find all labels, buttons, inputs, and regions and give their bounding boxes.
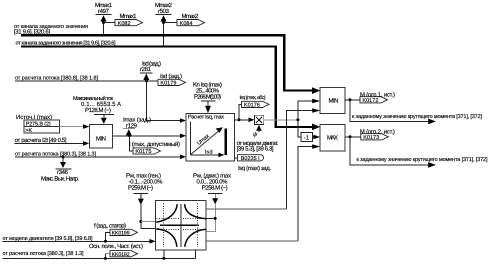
wire I2t input to MIN	[15, 141, 90, 146]
node flux stub junction	[162, 257, 165, 260]
wire 4Q to P258 junction	[206, 217, 215, 219]
connector flag K0179 Isd	[158, 73, 186, 87]
wire tap to flag K0175	[130, 136, 134, 151]
svg-text:K084: K084	[180, 21, 193, 27]
svg-text:Isq (max) зад.: Isq (max) зад.	[238, 165, 271, 172]
wire to flag K084	[164, 22, 178, 24]
svg-text:r503: r503	[158, 8, 170, 15]
svg-text:Mmax2: Mmax2	[182, 13, 200, 20]
monitor point r346 max output voltage	[41, 157, 79, 182]
svg-text:K0173: K0173	[363, 135, 379, 141]
connector flag KK0192	[106, 251, 138, 259]
parameter P128 max current	[73, 95, 121, 124]
connector flag K084 Mmax2	[177, 13, 205, 27]
block U3: MAX	[320, 125, 345, 151]
wire MIN output	[345, 99, 360, 101]
svg-text:I (max, допустимый): I (max, допустимый)	[129, 141, 180, 148]
wire 4Q motoring output (to riser)	[206, 208, 286, 210]
block U5: 4-quadrant power limit	[156, 200, 206, 250]
graph inside U1: Isd clamp (thick vertical)	[225, 128, 227, 155]
svg-text:25... 400%: 25... 400%	[196, 87, 220, 94]
svg-text:>K: >K	[25, 128, 32, 134]
wire Mmax1 bus (thick) to MIN input 1	[21, 35, 320, 94]
svg-text:K0172: K0172	[362, 98, 378, 104]
svg-text:K0176: K0176	[244, 103, 260, 109]
wire Isd down into Isq-max block	[147, 81, 181, 121]
svg-text:MIN: MIN	[96, 135, 106, 142]
wire flux line into U1	[15, 156, 180, 158]
svg-text:к заданному значению крутящего: к заданному значению крутящего момента […	[352, 114, 482, 120]
wire U1 flux input arrow	[180, 155, 186, 160]
wire MAX limit to torque setpoint	[350, 137, 436, 168]
wire flux line under 4Q	[3, 257, 196, 259]
block -1 inverter	[301, 133, 313, 142]
svg-text:r281: r281	[140, 66, 152, 73]
svg-text:[39 5.3], [39 6.3]: [39 5.3], [39 6.3]	[237, 146, 274, 153]
graph U5 hyperbola curves	[156, 204, 206, 247]
monitor point Mmax1 r497	[95, 2, 113, 21]
wire to flag K082	[104, 22, 116, 24]
svg-text:Осн. поля., Част. (ист.): Осн. поля., Част. (ист.)	[89, 243, 143, 250]
wire generator limit riser to MAX input 3	[298, 144, 320, 241]
node r346 junction	[62, 156, 65, 159]
graph inside U1: x-axis with arrow	[190, 153, 224, 158]
svg-text:K0175: K0175	[135, 149, 151, 155]
wire flux stubs into 4Q bottom	[164, 250, 196, 259]
wire selector output to MIN (grey)	[60, 124, 90, 129]
parameter Kn Isq (max) P268	[193, 81, 222, 113]
node KK0199 junction	[104, 240, 107, 243]
svg-text:MAX: MAX	[327, 135, 338, 142]
svg-text:KK0192: KK0192	[112, 252, 130, 258]
wire f setpoint into 4Q	[3, 239, 156, 244]
svg-text:-1: -1	[304, 134, 310, 141]
svg-text:ψ: ψ	[253, 132, 258, 138]
svg-text:Isq (max, абс): Isq (max, абс)	[240, 95, 266, 101]
svg-text:K082: K082	[118, 21, 131, 27]
svg-text:f (зад., статор): f (зад., статор)	[94, 222, 126, 229]
svg-text:от расчета потока [380.3], [38: от расчета потока [380.3], [38 1.3]	[3, 251, 84, 257]
wire junction down to inverter -1	[298, 120, 301, 137]
graph U5 dotted verticals	[163, 203, 197, 247]
svg-text:r346: r346	[57, 169, 69, 176]
svg-text:к заданному значению крутящего: к заданному значению крутящего момента […	[357, 157, 488, 163]
connector flag K082 Mmax1	[115, 13, 143, 27]
graph U5 solid horizontal	[160, 224, 199, 226]
block U2: MIN (right)	[320, 87, 345, 113]
node P259 junction	[139, 220, 142, 223]
node Mmax1 junction	[102, 21, 105, 24]
node r129 junction	[128, 134, 131, 137]
svg-text:P259.M (~): P259.M (~)	[128, 184, 153, 191]
svg-text:Isd: Isd	[205, 149, 213, 155]
block U1: Расчет Isq, max	[186, 114, 235, 161]
wire U1 output to multiplier	[235, 118, 255, 123]
node flux junction	[104, 257, 107, 260]
wire motoring limit riser to MIN input 3	[286, 108, 320, 209]
graph inside U1: Umax diagonal with arrow	[190, 127, 223, 155]
svg-text:r497: r497	[98, 8, 110, 15]
svg-text:K0179: K0179	[160, 81, 176, 87]
node Mmax2 junction	[162, 21, 165, 24]
wire Mmax2 bus (thick) to MAX input 1	[21, 46, 320, 130]
wire 4Q generator output (to riser)	[206, 240, 298, 242]
wire U4 output to U1 input (Imax допустимый)	[113, 134, 186, 139]
node U1 output junction	[238, 118, 241, 121]
svg-text:Макс. Вых. Напр.: Макс. Вых. Напр.	[41, 175, 79, 182]
svg-text:Mmax1: Mmax1	[120, 13, 138, 20]
connector flag K0172 M ogr.1	[360, 91, 395, 104]
multiplier X	[254, 115, 263, 124]
graph U5 dotted horizontals	[157, 219, 206, 230]
connector flag K0175 I max допустимый	[129, 141, 180, 155]
wire multiplier output (grey)	[264, 119, 298, 121]
wire P259 into 4Q block	[138, 194, 156, 229]
graph U5 center vertical axis	[180, 204, 182, 247]
wire up to flag K0176	[239, 105, 242, 120]
svg-text:KK0199: KK0199	[112, 231, 130, 237]
wire MIN limit to torque setpoint	[350, 100, 436, 124]
connector flag K0173 M ogr.2	[360, 128, 395, 141]
wire Isd setpoint	[15, 80, 158, 82]
wire MAX output	[345, 136, 361, 138]
monitor point Mmax2 r503	[155, 2, 173, 21]
svg-text:0.1... 6553.5 A: 0.1... 6553.5 A	[81, 101, 121, 108]
node MAX output junction	[349, 135, 352, 138]
graph inside U1: y-axis	[189, 122, 191, 155]
wire P258 into 4Q block	[206, 193, 218, 231]
monitor point r129 Imax	[123, 116, 151, 135]
block U4: MIN (left)	[89, 124, 112, 147]
connector flag K0176 Isq max abs	[240, 95, 270, 109]
svg-text:Максимальный ток: Максимальный ток	[73, 95, 114, 102]
connector flag B0235 (rounded)	[235, 155, 264, 162]
wire -1 output to MAX input 2	[313, 135, 321, 140]
parameter P259 generator power limit	[126, 173, 163, 194]
net label: from setpoint channel line 1	[14, 24, 88, 36]
node P258 junction	[214, 217, 217, 220]
svg-text:от расчета I2t [49 0.5]: от расчета I2t [49 0.5]	[15, 137, 67, 144]
net label: from motor model	[237, 141, 279, 153]
connector flag KK0199	[106, 229, 138, 241]
wire Mmax2 tap	[163, 21, 165, 47]
svg-text:Расчет Isq, max: Расчет Isq, max	[188, 115, 224, 121]
node multiplier output junction	[296, 118, 299, 121]
svg-text:от расчета потока [380.3], [38: от расчета потока [380.3], [38 1.3]	[15, 151, 96, 157]
svg-text:P128.M (~): P128.M (~)	[85, 107, 111, 114]
multiplier flux input arrow (psi)	[253, 125, 262, 138]
svg-text:B0235 I: B0235 I	[241, 156, 260, 162]
wire junction into 4Q (grey)	[141, 221, 156, 223]
node Isd junction	[145, 79, 148, 82]
parameter P258 motoring power limit	[193, 173, 231, 194]
svg-text:P268.M(100): P268.M(100)	[194, 93, 221, 100]
wire Mmax1 tap	[103, 21, 105, 36]
wire junction up to MIN input 2	[298, 99, 320, 120]
parameter source selector P275.B	[16, 114, 60, 134]
svg-text:MIN: MIN	[329, 98, 339, 105]
node MIN output junction	[348, 98, 351, 101]
monitor point r281 Isd	[140, 60, 161, 80]
svg-text:P258.M (~): P258.M (~)	[202, 184, 228, 191]
